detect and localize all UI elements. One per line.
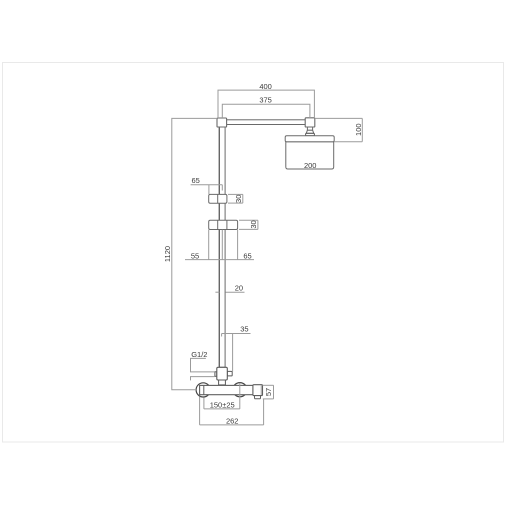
svg-text:65: 65	[192, 176, 200, 185]
dimension 1120	[172, 118, 217, 389]
shower head mount cone	[306, 130, 314, 133]
svg-text:375: 375	[259, 96, 272, 105]
svg-text:57: 57	[264, 388, 273, 396]
wall elbow joint (left)	[217, 118, 227, 127]
dimension 20	[215, 291, 244, 293]
dimension 400	[218, 90, 314, 118]
wall flange circle right	[233, 383, 247, 397]
shower head body	[286, 142, 334, 169]
svg-text:G1/2: G1/2	[191, 350, 207, 359]
svg-text:400: 400	[259, 82, 272, 91]
dimension 150±25	[204, 383, 240, 409]
svg-text:20: 20	[235, 284, 243, 293]
svg-text:30: 30	[234, 195, 243, 203]
slider bracket upper	[209, 194, 227, 203]
dimension 100	[315, 118, 363, 141]
shower head top plate	[285, 136, 334, 142]
dimension 375	[222, 104, 310, 118]
dimension 30 upper bracket	[228, 194, 243, 203]
svg-text:55: 55	[191, 252, 199, 261]
svg-text:1120: 1120	[163, 246, 172, 262]
slider bracket lower	[209, 220, 238, 229]
svg-text:65: 65	[243, 252, 251, 261]
dimension 262	[200, 397, 264, 425]
shower head stem	[307, 127, 312, 130]
dimension 35	[222, 334, 251, 372]
svg-text:262: 262	[226, 417, 239, 426]
pipe-to-valve fitting	[215, 367, 232, 385]
riser pipe	[219, 127, 225, 367]
shower arm (horizontal tube)	[226, 120, 305, 125]
spout tip	[255, 396, 261, 399]
dimension 30 lower bracket	[239, 220, 258, 229]
arm elbow joint (right)	[305, 118, 315, 127]
wall flange circle left	[196, 383, 210, 397]
outlet block	[253, 385, 263, 396]
G1/2 leader lower	[191, 377, 215, 381]
svg-text:30: 30	[249, 220, 258, 228]
svg-text:100: 100	[354, 123, 363, 136]
svg-text:35: 35	[240, 324, 248, 333]
dimension 55-65	[185, 230, 254, 260]
svg-text:200: 200	[304, 161, 317, 170]
dimension 65 upper	[191, 185, 223, 195]
mixer valve body	[200, 385, 254, 394]
svg-text:150±25: 150±25	[210, 401, 235, 410]
dimension 57	[263, 385, 274, 399]
drawing frame	[3, 63, 504, 443]
G1/2 leader upper	[191, 358, 215, 372]
